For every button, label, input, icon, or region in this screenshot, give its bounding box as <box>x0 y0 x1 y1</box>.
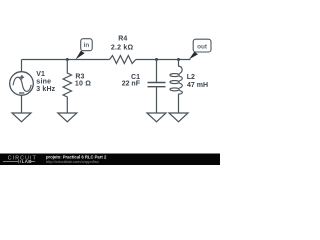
node flag box (out) <box>193 39 211 52</box>
svg-text:R4: R4 <box>118 35 127 42</box>
node dot (in junction) <box>66 58 69 61</box>
resistor R4 <box>110 56 136 64</box>
svg-text:2.2 kΩ: 2.2 kΩ <box>111 45 134 52</box>
capacitor C1 <box>148 60 166 114</box>
wire: V1 top lead <box>21 60 23 72</box>
node flag box (in) <box>81 39 93 51</box>
ground (V1) <box>12 113 31 122</box>
label V1 value <box>36 71 55 93</box>
watermark bar <box>0 154 220 166</box>
svg-text:http://circuitlab.com/c/qrpn5s: http://circuitlab.com/c/qrpn5sv <box>46 159 99 164</box>
svg-text:V1: V1 <box>36 71 45 78</box>
CircuitLab logo symbol row <box>3 160 35 163</box>
node flag tail (out) <box>189 52 198 60</box>
ground (C1) <box>147 113 166 122</box>
svg-text:22 nF: 22 nF <box>122 81 141 88</box>
wire: top horizontal rail left of R4 <box>22 59 110 61</box>
label R4 value <box>111 35 134 51</box>
node flag tail (in) <box>76 51 85 60</box>
svg-text:10 Ω: 10 Ω <box>75 80 91 87</box>
svg-text:R3: R3 <box>75 73 84 80</box>
label R3 value <box>75 73 91 87</box>
wire: V1 bottom lead <box>21 95 23 113</box>
label L2 value <box>187 74 208 89</box>
svg-text:LAB: LAB <box>22 159 33 164</box>
node dot (C1 junction) <box>155 58 158 61</box>
svg-text:in: in <box>84 42 90 49</box>
inductor L2 <box>170 60 182 114</box>
wire: top horizontal rail right of R4 <box>136 59 191 61</box>
label C1 value <box>122 74 141 88</box>
svg-text:sine: sine <box>36 79 51 86</box>
ground (R3) <box>58 113 77 122</box>
resistor R3 <box>63 60 71 114</box>
svg-text:47 mH: 47 mH <box>187 82 208 89</box>
node dot (L2 junction) <box>177 58 180 61</box>
svg-text:3 kHz: 3 kHz <box>36 86 55 93</box>
svg-text:L2: L2 <box>187 74 195 81</box>
ground (L2) <box>169 113 188 122</box>
svg-text:out: out <box>197 43 208 50</box>
voltage source V1 <box>10 72 34 96</box>
